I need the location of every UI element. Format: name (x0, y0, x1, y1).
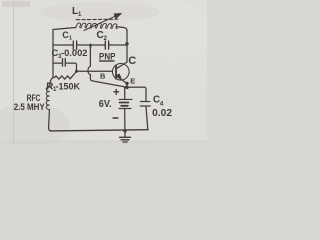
wire: C4 to bottom rail (146, 107, 148, 130)
svg-text:B: B (100, 72, 105, 81)
capacitor C2 (105, 41, 108, 49)
svg-text:E: E (130, 76, 135, 85)
svg-text:C: C (128, 55, 136, 67)
wire: emitter to right rail (127, 87, 146, 101)
battery B1 plates (119, 98, 132, 100)
paper background (0, 0, 207, 144)
wire: C2 to right vertical (109, 44, 127, 46)
ground symbol (120, 136, 131, 138)
junction dot ground rail (123, 129, 126, 132)
wire: right-center vertical (collector feed) (126, 30, 128, 62)
svg-text:PNP: PNP (99, 50, 115, 61)
RFC choke lead (50, 78, 53, 88)
emitter arrowhead (PNP) (117, 74, 121, 78)
svg-text:1: 1 (69, 35, 72, 41)
RFC choke loops (46, 87, 49, 110)
wire: base lead (77, 70, 113, 72)
ground stub (124, 131, 126, 137)
wire: RFC to bottom rail (49, 110, 51, 131)
svg-text:+: + (113, 87, 120, 99)
transistor emitter lead (116, 76, 127, 83)
transistor base bar (115, 66, 117, 79)
junction tick at C1-C2 tap (90, 44, 92, 48)
svg-text:-150K: -150K (56, 82, 81, 92)
inductor L1 coil loops (76, 23, 117, 29)
wire: emitter node stub (126, 83, 128, 87)
label battery minus (113, 117, 119, 119)
svg-text:-0.002: -0.002 (61, 48, 88, 58)
wire: C1 to tap junction to C2 (77, 44, 105, 46)
svg-text:6V.: 6V. (99, 99, 112, 110)
top-left smudge (2, 1, 30, 7)
battery positive lead (124, 87, 126, 99)
L1 dashed core (76, 18, 117, 21)
transistor Q1 circle (113, 64, 130, 81)
junction dot base (75, 70, 78, 73)
capacitor C4 (141, 101, 150, 103)
wire: bottom rail (50, 130, 148, 131)
PNP underline (99, 60, 115, 61)
svg-text:2.5 MHY: 2.5 MHY (14, 102, 45, 112)
transistor collector lead (116, 62, 127, 69)
battery negative lead (124, 109, 126, 131)
wire: coil L1 right lead (116, 27, 127, 31)
junction dot emitter rail (125, 86, 128, 89)
paper mottling (125, 2, 215, 58)
wire: coil L1 left lead (53, 28, 76, 30)
wire: top tank wire (53, 44, 73, 46)
L1 arrowhead (114, 13, 121, 18)
svg-text:2: 2 (104, 35, 108, 42)
capacitor C1 (73, 41, 76, 49)
page crease line (13, 0, 14, 144)
capacitor C3 (63, 59, 66, 67)
wire: tank left vertical (52, 30, 54, 78)
resistor R1 (53, 72, 77, 80)
junction dot at collector feed (125, 42, 128, 45)
junction dot emitter (125, 82, 128, 85)
wire: tap down from C1-C2 junction with hop over base wire (88, 45, 127, 87)
L1 tuning arrow shaft (84, 15, 118, 30)
svg-text:0.02: 0.02 (152, 108, 172, 119)
svg-text:4: 4 (160, 101, 164, 108)
wire: C3 branch (53, 63, 77, 71)
